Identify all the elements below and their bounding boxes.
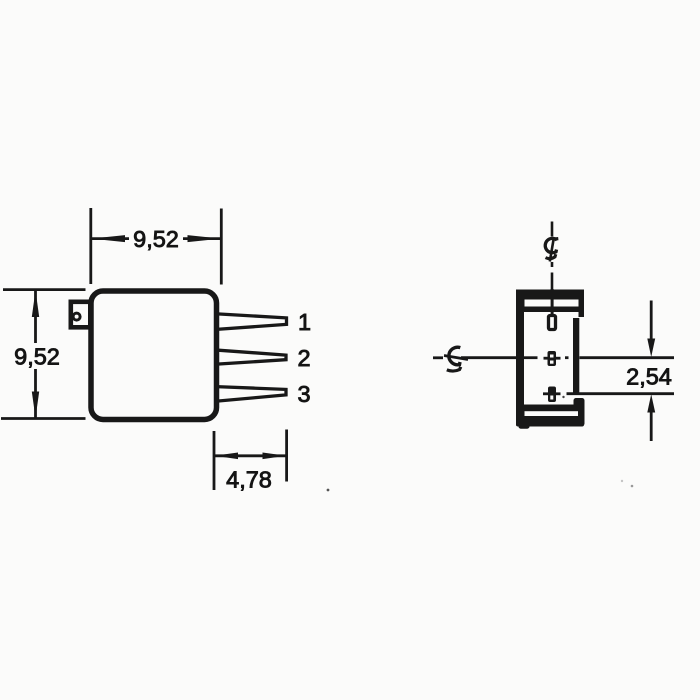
extension line left <box>213 431 216 490</box>
horizontal centerline + symbol (left) <box>433 356 674 360</box>
arrowhead left <box>91 235 125 242</box>
extension line bottom <box>1 417 86 420</box>
centerline symbol (top) <box>553 237 559 241</box>
side body: left wall <box>516 290 524 426</box>
width dimension 9,52 (top) <box>91 208 222 285</box>
arrowhead up <box>32 290 39 317</box>
centerline stub through top flange <box>551 289 554 316</box>
svg-text:4,78: 4,78 <box>226 467 272 493</box>
dimension line <box>91 237 221 240</box>
pin 3 (side view, section) <box>543 387 561 403</box>
pin pitch dimension 2,54 <box>650 301 653 442</box>
svg-text:2: 2 <box>297 345 310 371</box>
arrowhead down <box>647 339 655 358</box>
side body: top flange <box>516 290 584 313</box>
pin 3 extension line <box>567 392 675 395</box>
bottom flange slot (white) <box>525 411 579 416</box>
value 9,52 (left) <box>10 343 64 369</box>
arrowhead left <box>214 453 238 460</box>
arrowhead right <box>263 453 287 460</box>
arrowhead down <box>32 392 39 419</box>
side body: bottom flange <box>516 405 584 427</box>
value 9,52 (top) <box>129 227 183 251</box>
extension line right <box>285 430 288 482</box>
dimension line <box>34 291 37 418</box>
pin 1 (side view) <box>549 316 556 330</box>
pin length dimension 4,78 (bottom) <box>214 430 287 491</box>
dimension line <box>214 454 287 457</box>
arrowhead right <box>188 235 222 242</box>
svg-text:2,54: 2,54 <box>626 364 672 390</box>
top flange slot (white) <box>525 300 579 307</box>
pin 2 (side view, section) <box>544 351 561 366</box>
extension line left <box>89 208 92 284</box>
side body: right wall <box>573 318 579 394</box>
side body: top-right cap <box>579 290 585 318</box>
svg-text:1: 1 <box>298 309 311 335</box>
svg-text:9,52: 9,52 <box>133 226 179 252</box>
svg-text:3: 3 <box>297 381 310 407</box>
pin 2 (front view, tapered) <box>213 350 286 365</box>
side body: bottom-right hook <box>574 398 585 426</box>
pin 1 (front view, tapered) <box>213 314 287 330</box>
svg-text:9,52: 9,52 <box>14 344 60 370</box>
arrowhead up <box>647 394 655 412</box>
extension line right <box>220 209 223 285</box>
component body (front view) <box>91 291 217 420</box>
pin 3 (front view, tapered) <box>213 387 286 402</box>
height dimension 9,52 (left) <box>1 290 86 419</box>
centerline symbol (left) <box>449 347 460 365</box>
extension line top <box>3 288 86 291</box>
scan specks <box>327 489 330 492</box>
tab (adjust slot boss) on left of body <box>71 302 91 328</box>
vertical centerline (top) <box>550 222 554 290</box>
